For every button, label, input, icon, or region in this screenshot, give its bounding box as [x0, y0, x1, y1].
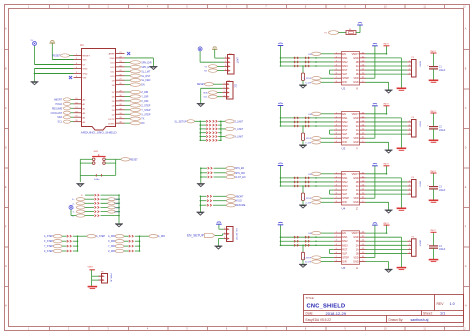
svg-text:X_STEP: X_STEP	[304, 78, 312, 80]
svg-text:VMOT: VMOT	[383, 104, 389, 106]
svg-text:Z_STEP: Z_STEP	[44, 250, 53, 253]
svg-text:D: D	[465, 147, 467, 150]
svg-text:GND: GND	[353, 117, 359, 120]
svg-text:MS3: MS3	[342, 184, 348, 188]
svg-text:ZMOT: ZMOT	[418, 181, 420, 188]
svg-text:VMOT: VMOT	[88, 266, 95, 268]
svg-text:VMOT: VMOT	[352, 232, 360, 235]
svg-text:2B: 2B	[356, 121, 359, 124]
svg-text:1B: 1B	[356, 193, 359, 196]
svg-text:RST: RST	[342, 128, 348, 132]
svg-text:4: 4	[225, 69, 226, 71]
svg-text:2B: 2B	[356, 181, 359, 184]
svg-text:GND: GND	[110, 58, 115, 60]
svg-text:Drawn By:: Drawn By:	[389, 318, 404, 322]
svg-text:D: D	[5, 147, 7, 150]
svg-text:X_LIMIT: X_LIMIT	[235, 137, 244, 139]
svg-text:U2: U2	[342, 87, 346, 91]
svg-text:1B: 1B	[356, 73, 359, 76]
svg-text:GND: GND	[83, 69, 88, 71]
svg-text:GND: GND	[353, 201, 359, 204]
svg-text:MS3: MS3	[342, 243, 348, 247]
svg-text:X_LMT: X_LMT	[114, 212, 121, 214]
svg-text:Y: Y	[356, 147, 358, 151]
svg-text:1A: 1A	[356, 69, 359, 72]
svg-text:100uF: 100uF	[439, 130, 446, 132]
svg-text:1.0: 1.0	[450, 302, 455, 306]
svg-text:VMOT: VMOT	[352, 113, 360, 116]
svg-text:S-Btn: S-Btn	[94, 178, 100, 181]
svg-text:Z_STEP: Z_STEP	[141, 104, 150, 107]
svg-text:EN: EN	[342, 112, 346, 116]
svg-text:U4: U4	[342, 207, 346, 211]
svg-text:1B: 1B	[356, 252, 359, 255]
svg-text:Z-: Z-	[72, 203, 74, 205]
svg-text:U5: U5	[342, 266, 346, 270]
svg-text:SLP: SLP	[342, 72, 347, 76]
svg-text:X: X	[356, 87, 358, 91]
svg-text:X_STEP: X_STEP	[141, 113, 151, 116]
svg-text:RST: RST	[342, 188, 348, 192]
svg-text:VIN: VIN	[83, 78, 87, 80]
svg-text:STEP: STEP	[342, 136, 349, 140]
svg-text:3: 3	[225, 65, 226, 67]
svg-text:EN: EN	[342, 172, 346, 176]
svg-text:2018-12-29: 2018-12-29	[326, 311, 347, 316]
svg-text:A_STEP: A_STEP	[44, 235, 54, 238]
svg-text:X_DIR: X_DIR	[305, 82, 311, 84]
svg-text:GND: GND	[353, 141, 359, 144]
svg-text:MS1: MS1	[342, 116, 348, 120]
svg-text:VMOT: VMOT	[383, 164, 389, 166]
svg-text:Z_LMT: Z_LMT	[114, 199, 121, 201]
svg-text:1B: 1B	[356, 133, 359, 136]
svg-text:D1/TX: D1/TX	[108, 119, 115, 121]
svg-text:U3: U3	[342, 147, 346, 151]
svg-text:1: 1	[223, 83, 224, 85]
svg-text:CNC_SHIELD: CNC_SHIELD	[307, 303, 346, 309]
svg-text:Date:: Date:	[306, 311, 314, 315]
svg-text:Sheet:: Sheet:	[423, 311, 433, 315]
svg-text:EN: EN	[342, 231, 346, 235]
svg-text:RESET: RESET	[130, 159, 138, 161]
svg-text:A_STEP: A_STEP	[304, 257, 312, 260]
svg-text:SPN_DIR: SPN_DIR	[235, 173, 245, 175]
svg-text:Y_LMT: Y_LMT	[114, 207, 121, 209]
svg-text:MS2: MS2	[342, 120, 348, 124]
svg-text:2A: 2A	[356, 185, 359, 188]
svg-text:Y_DIR: Y_DIR	[141, 95, 148, 98]
svg-text:RST: RST	[342, 68, 348, 72]
svg-text:HOLD: HOLD	[56, 103, 63, 106]
svg-text:A_STEP: A_STEP	[96, 235, 106, 238]
svg-text:SLP: SLP	[342, 192, 347, 196]
svg-text:GND: GND	[353, 81, 359, 84]
svg-text:RESET: RESET	[83, 56, 91, 58]
svg-text:Z_LIMIT: Z_LIMIT	[235, 121, 244, 123]
svg-text:100uF: 100uF	[439, 70, 446, 72]
svg-text:H: H	[465, 305, 467, 308]
svg-text:TX: TX	[141, 118, 144, 121]
svg-text:A_DIR: A_DIR	[108, 235, 115, 238]
svg-text:AMOT: AMOT	[418, 240, 421, 247]
svg-text:SL_LMT: SL_LMT	[141, 70, 151, 73]
svg-text:Z_DIR: Z_DIR	[108, 250, 115, 253]
svg-text:MS2: MS2	[342, 239, 348, 243]
svg-text:RESUME: RESUME	[52, 107, 63, 110]
svg-text:GND: GND	[353, 57, 359, 60]
svg-text:VDD: VDD	[354, 137, 359, 140]
svg-text:Z: Z	[356, 207, 358, 211]
svg-text:EN: EN	[342, 52, 346, 56]
svg-text:1: 1	[224, 228, 225, 230]
svg-text:VMOT: VMOT	[430, 111, 436, 113]
svg-text:VMOT: VMOT	[430, 51, 436, 53]
svg-text:VMOT: VMOT	[430, 171, 436, 173]
svg-text:1A: 1A	[356, 129, 359, 132]
svg-text:GND: GND	[353, 177, 359, 180]
svg-text:GND: GND	[83, 74, 88, 76]
svg-text:MS3: MS3	[342, 64, 348, 68]
svg-text:G: G	[465, 265, 467, 268]
svg-text:X-: X-	[81, 195, 83, 197]
svg-text:SLP: SLP	[342, 251, 347, 255]
svg-text:Y-: Y-	[73, 212, 75, 214]
svg-text:VMOT: VMOT	[352, 173, 360, 176]
svg-text:ABORT: ABORT	[54, 98, 63, 101]
svg-text:Y_STEP: Y_STEP	[44, 245, 54, 248]
svg-text:VDD: VDD	[354, 77, 359, 80]
svg-text:A: A	[356, 266, 358, 270]
svg-text:X_STEP: X_STEP	[44, 240, 54, 243]
svg-text:SL_FED: SL_FED	[141, 79, 150, 82]
svg-text:STEP: STEP	[342, 76, 349, 80]
svg-text:C: C	[465, 107, 467, 110]
svg-text:RST: RST	[342, 247, 348, 251]
svg-text:D0/RX: D0/RX	[108, 123, 115, 125]
svg-text:A_DIR: A_DIR	[305, 261, 311, 264]
svg-text:SPN_DIR: SPN_DIR	[141, 61, 152, 64]
svg-text:Y_STEP: Y_STEP	[304, 138, 312, 140]
svg-text:2: 2	[224, 233, 225, 235]
svg-text:RESET: RESET	[197, 84, 205, 86]
svg-text:C: C	[5, 107, 7, 110]
svg-text:EN: EN	[141, 84, 145, 87]
svg-text:2A: 2A	[356, 65, 359, 68]
svg-text:santhosh.aj: santhosh.aj	[411, 318, 429, 322]
svg-text:VMOT: VMOT	[383, 223, 389, 225]
svg-text:VDD: VDD	[354, 256, 359, 259]
svg-text:SPN_EN: SPN_EN	[235, 168, 245, 170]
svg-text:1: 1	[225, 57, 226, 59]
svg-text:ARDUINO_UNO_SHIELD: ARDUINO_UNO_SHIELD	[81, 130, 118, 134]
svg-text:Y_LIMIT: Y_LIMIT	[235, 129, 244, 131]
svg-text:Z_DIR: Z_DIR	[305, 202, 311, 204]
svg-text:X_DIR: X_DIR	[141, 100, 148, 103]
svg-text:Z_DIR: Z_DIR	[141, 91, 148, 94]
svg-text:UART: UART	[236, 57, 239, 64]
svg-text:SDA: SDA	[203, 92, 208, 95]
svg-text:SCL: SCL	[58, 121, 63, 124]
svg-text:I2C: I2C	[234, 84, 237, 88]
svg-text:Z_STEP: Z_STEP	[304, 198, 312, 200]
svg-text:Z_LMT: Z_LMT	[114, 203, 121, 205]
svg-text:3: 3	[223, 91, 224, 93]
svg-text:1A: 1A	[356, 189, 359, 192]
svg-text:G: G	[5, 265, 7, 268]
svg-text:CLNT_EN: CLNT_EN	[235, 177, 246, 179]
svg-text:2: 2	[223, 87, 224, 89]
svg-text:GND: GND	[353, 236, 359, 239]
svg-text:1A: 1A	[356, 248, 359, 251]
svg-text:1/1: 1/1	[440, 312, 445, 316]
svg-text:2: 2	[225, 61, 226, 63]
svg-text:Y_DIR: Y_DIR	[305, 142, 311, 144]
svg-text:ABORT: ABORT	[236, 195, 244, 198]
svg-text:SL_RST: SL_RST	[141, 75, 151, 78]
svg-text:4: 4	[223, 95, 224, 97]
svg-text:100uF: 100uF	[439, 190, 446, 192]
svg-text:XMOT: XMOT	[418, 61, 420, 68]
svg-text:RESUME: RESUME	[236, 205, 246, 207]
svg-text:DIR: DIR	[342, 200, 347, 204]
svg-text:AREF: AREF	[109, 53, 115, 56]
svg-text:RX: RX	[141, 122, 145, 125]
svg-text:EN_SETUP: EN_SETUP	[187, 234, 204, 238]
svg-text:SLP: SLP	[342, 132, 347, 136]
svg-text:VMOT: VMOT	[352, 53, 360, 56]
svg-text:COOLANT: COOLANT	[51, 112, 63, 115]
svg-text:STEP: STEP	[342, 196, 349, 200]
svg-text:VMOT: VMOT	[430, 230, 436, 232]
svg-text:VDD: VDD	[354, 197, 359, 200]
svg-text:2A: 2A	[356, 125, 359, 128]
svg-text:A_DIR: A_DIR	[158, 235, 165, 238]
svg-text:MS2: MS2	[342, 180, 348, 184]
svg-text:PWR_IN: PWR_IN	[109, 274, 111, 283]
svg-text:MS2: MS2	[342, 60, 348, 64]
svg-text:DIR: DIR	[342, 260, 347, 264]
svg-text:MS1: MS1	[342, 56, 348, 60]
svg-text:100uF: 100uF	[439, 249, 446, 251]
svg-text:HOLD: HOLD	[236, 201, 243, 203]
svg-text:YMOT: YMOT	[418, 121, 420, 128]
svg-text:Y_DIR: Y_DIR	[108, 245, 115, 248]
svg-text:SL_SETUP: SL_SETUP	[174, 120, 187, 123]
svg-text:RESET: RESET	[53, 55, 62, 58]
svg-text:GND: GND	[353, 261, 359, 264]
svg-text:STEP: STEP	[342, 255, 349, 259]
svg-text:2B: 2B	[356, 240, 359, 243]
svg-text:SDA: SDA	[57, 116, 62, 119]
svg-text:H: H	[5, 305, 7, 308]
svg-text:EasyEDA V5.9.22: EasyEDA V5.9.22	[306, 318, 332, 322]
svg-text:MS3: MS3	[342, 124, 348, 128]
svg-text:MS1: MS1	[342, 235, 348, 239]
svg-text:VMOT: VMOT	[383, 44, 389, 46]
svg-text:MS1: MS1	[342, 176, 348, 180]
svg-text:X_DIR: X_DIR	[108, 240, 115, 243]
svg-text:3: 3	[224, 237, 225, 239]
svg-text:2B: 2B	[356, 61, 359, 64]
svg-text:SW1: SW1	[94, 151, 100, 153]
svg-text:TITLE:: TITLE:	[306, 296, 315, 300]
svg-text:REV: REV	[437, 302, 445, 306]
svg-text:U1: U1	[80, 43, 84, 47]
svg-text:Y_STEP: Y_STEP	[141, 109, 151, 112]
svg-text:2A: 2A	[356, 244, 359, 247]
svg-text:EN_SETUP: EN_SETUP	[235, 229, 237, 241]
svg-text:DIR: DIR	[342, 140, 347, 144]
svg-text:DIR: DIR	[342, 80, 347, 84]
